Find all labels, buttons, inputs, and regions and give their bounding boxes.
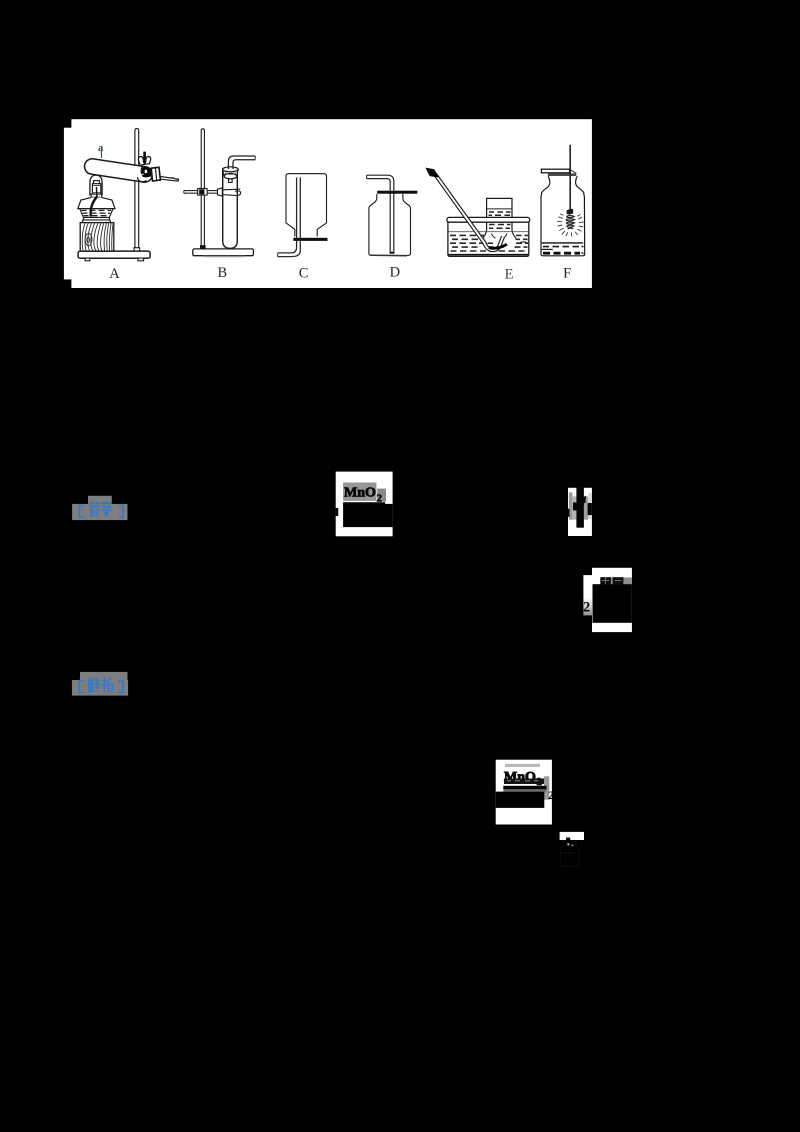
bottle F: [541, 176, 585, 256]
wire F: [569, 145, 571, 210]
patch 1 : equation MnO2 fragment: [335, 472, 393, 537]
tank water line E: [449, 231, 529, 233]
alcohol lamp arch A: [90, 175, 102, 195]
sparks F: [557, 214, 583, 237]
test tube B: [223, 168, 238, 249]
collection bottle E: [483, 198, 517, 238]
bent tube D: [367, 175, 394, 253]
water in bottle F: [542, 242, 584, 244]
char an (answer-2): [102, 501, 112, 517]
char xi (analysis-2): [102, 678, 113, 693]
svg-text:B: B: [217, 265, 227, 281]
lamp core A: [92, 184, 100, 195]
patch 5 : small white bar fragment: [560, 832, 584, 866]
lower hook A: [137, 177, 146, 181]
lamp foot rings A: [83, 217, 109, 220]
patch 3 : equation fragment with ignition chars: [583, 568, 632, 632]
blue label [analysis]: [72, 672, 128, 696]
delivery tube A: [161, 177, 179, 180]
patch 2 : small holder icon fragment: [567, 486, 592, 536]
clamp jaw at tube B: [218, 188, 223, 196]
bottle C (inverted): [286, 174, 327, 237]
svg-text:MnO: MnO: [344, 486, 376, 501]
alcohol waves A: [82, 209, 112, 211]
tank water dashes E: [450, 235, 528, 251]
wick curve A: [91, 196, 98, 216]
cap plate F: [541, 169, 569, 173]
dark mark at bottle mouth E: [489, 244, 507, 248]
water level in bottle E: [487, 208, 512, 210]
cover plate D: [377, 191, 417, 194]
iron stand rod B: [201, 129, 204, 249]
labels A-F: [109, 265, 571, 283]
patch 4 : equation fragment: [496, 760, 554, 825]
trough tank E: [448, 222, 529, 257]
iron stand base B: [193, 249, 254, 256]
stopper A: [151, 167, 160, 181]
lamp liquid cup A: [80, 209, 113, 218]
svg-text:C: C: [299, 266, 309, 282]
clamp jaw blob A: [141, 167, 152, 178]
svg-text:F: F: [563, 266, 571, 282]
rod mount block A: [134, 248, 140, 251]
char da (answer-1): [89, 501, 100, 516]
bracket left: [79, 506, 84, 518]
lamp body A: [78, 197, 115, 208]
svg-text:D: D: [390, 265, 400, 281]
wing nut A: [141, 152, 149, 165]
bracket left: [79, 681, 84, 693]
glass plate C: [293, 238, 327, 241]
figure left white strip: [64, 128, 72, 280]
bottle mouth inner lips E: [492, 234, 508, 239]
iron stand rod A: [135, 129, 139, 249]
clamp boss at rod B: [198, 189, 207, 196]
wood block A: [80, 223, 114, 252]
delivery tube E (diagonal with U bend): [435, 174, 503, 250]
bracket right: [118, 681, 123, 693]
spiral F: [566, 216, 575, 229]
knot F: [567, 209, 574, 215]
rod foot joint B: [200, 245, 206, 249]
arrowhead E: [425, 168, 439, 178]
lamp core tab A: [94, 181, 100, 184]
bent delivery tube B: [228, 156, 255, 169]
bottle D: [369, 194, 411, 256]
svg-text:a: a: [98, 143, 104, 154]
trough rim E: [447, 217, 530, 222]
svg-text:2: 2: [583, 599, 590, 615]
stopper B: [223, 170, 239, 177]
tube tip below stopper B: [229, 179, 233, 182]
char jie (analysis-1): [89, 678, 101, 693]
lamp collar A: [91, 194, 101, 197]
a lead line: [100, 151, 102, 158]
test tube A (tilted): [83, 158, 153, 184]
svg-text:2: 2: [548, 788, 554, 802]
iron stand base A: [78, 251, 150, 258]
bracket right: [118, 506, 123, 518]
figure white background: [71, 119, 592, 288]
svg-text:E: E: [505, 267, 514, 283]
clamp arm B: [184, 190, 218, 192]
svg-text:A: A: [109, 266, 120, 282]
blue label [answer]: [72, 496, 127, 520]
inner tube C: [278, 177, 297, 253]
